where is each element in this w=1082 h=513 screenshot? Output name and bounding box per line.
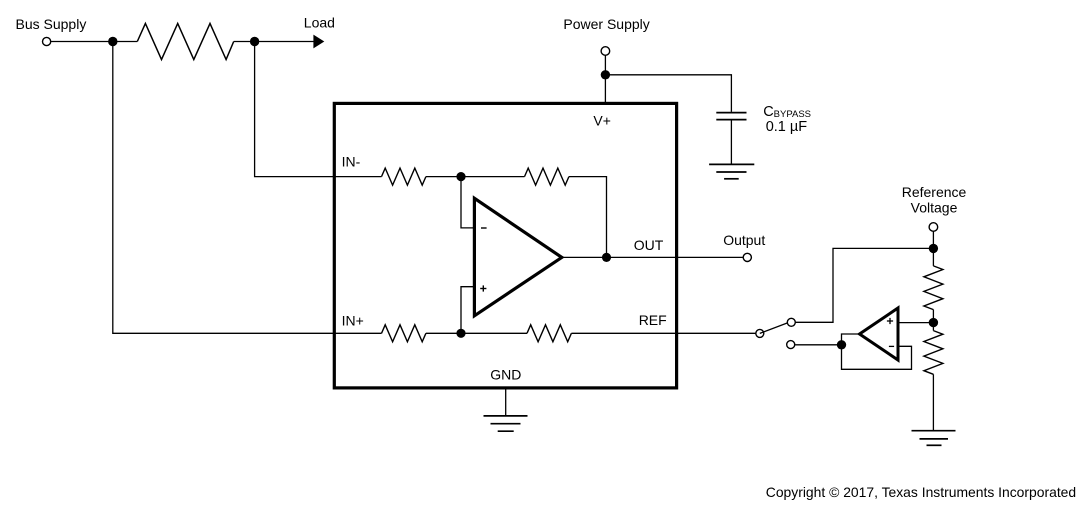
node IN+ junction xyxy=(456,329,465,338)
arrow to Load xyxy=(313,35,324,49)
wire xyxy=(426,176,461,178)
wire REF pin to switch pole xyxy=(571,332,755,334)
wire GND pin xyxy=(505,388,507,416)
svg-text:Bus Supply: Bus Supply xyxy=(16,16,87,32)
op-amp U1 plus sign xyxy=(480,288,486,290)
terminal Power Supply xyxy=(601,47,610,56)
op-amp buffer minus sign xyxy=(889,345,894,347)
wire xyxy=(234,41,255,43)
wire xyxy=(932,231,934,248)
switch pole (from REF) xyxy=(756,329,764,337)
switch arm xyxy=(760,323,788,334)
wire OUT pin xyxy=(562,256,677,258)
svg-text:Voltage: Voltage xyxy=(911,200,958,216)
wire xyxy=(461,332,527,334)
wire to bypass capacitor xyxy=(605,75,731,112)
switch throw 2 xyxy=(787,341,795,349)
node divider midpoint xyxy=(929,318,938,327)
wire xyxy=(604,55,606,75)
wire buffer non-inverting input xyxy=(898,322,933,324)
wire xyxy=(51,41,113,43)
svg-text:Reference: Reference xyxy=(902,184,967,200)
wire xyxy=(932,310,934,323)
resistor R_shunt xyxy=(137,24,233,60)
svg-text:0.1 µF: 0.1 µF xyxy=(766,119,808,135)
wire to non-inverting input xyxy=(461,287,474,334)
wire IN+ pin xyxy=(334,332,381,334)
node IN- junction xyxy=(456,172,465,181)
terminal Output xyxy=(743,253,751,261)
wire xyxy=(932,248,934,266)
wire to inverting input xyxy=(461,177,474,228)
ground symbol (IC GND) xyxy=(484,416,528,431)
wire node A down to IN+ xyxy=(113,42,334,334)
junction node B (shunt right) xyxy=(250,37,259,46)
svg-text:Power Supply: Power Supply xyxy=(563,16,649,32)
wire xyxy=(932,374,934,430)
svg-text:IN+: IN+ xyxy=(342,313,364,329)
svg-text:Load: Load xyxy=(304,14,335,30)
wire xyxy=(426,332,461,334)
wire xyxy=(255,41,314,43)
junction node A (shunt left) xyxy=(108,37,117,46)
resistor divider bottom xyxy=(924,331,943,375)
op-amp U1 xyxy=(474,198,561,315)
wire switch throw1 to reference node xyxy=(795,248,933,322)
resistor input IN- xyxy=(382,168,426,185)
svg-text:OUT: OUT xyxy=(634,237,664,253)
node OUT junction xyxy=(602,253,611,262)
junction node V+ xyxy=(601,70,610,79)
wire buffer output and feedback loop xyxy=(842,334,912,369)
wire IN- pin xyxy=(334,176,381,178)
terminal Reference Voltage xyxy=(929,223,938,232)
IC boundary box xyxy=(334,103,676,388)
wire V+ pin xyxy=(604,75,606,104)
svg-text:V+: V+ xyxy=(593,113,611,129)
wire xyxy=(932,323,934,331)
terminal Bus Supply xyxy=(43,37,51,45)
wire xyxy=(113,41,138,43)
resistor feedback (IN- to OUT) xyxy=(525,168,569,185)
op-amp U1 minus sign xyxy=(481,227,487,229)
wire throw2 to buffer output node xyxy=(795,344,842,346)
wire feedback top xyxy=(461,176,525,178)
wire OUT to Output terminal xyxy=(677,256,744,258)
svg-text:Copyright © 2017, Texas Instru: Copyright © 2017, Texas Instruments Inco… xyxy=(766,484,1076,500)
wire xyxy=(730,120,732,164)
ground symbol (bypass) xyxy=(709,164,754,178)
switch throw 1 xyxy=(787,318,795,326)
wire xyxy=(569,177,607,258)
wire node B down to IN- xyxy=(255,42,335,177)
ground symbol (divider) xyxy=(912,431,956,446)
resistor divider top xyxy=(924,266,943,310)
capacitor C_BYPASS xyxy=(716,113,746,120)
op-amp buffer plus sign xyxy=(887,320,893,322)
svg-text:Output: Output xyxy=(723,232,765,248)
resistor REF (IN+ to REF) xyxy=(527,325,571,342)
op-amp buffer U2 xyxy=(860,308,899,360)
svg-text:REF: REF xyxy=(639,312,667,328)
node buffer output junction xyxy=(837,340,846,349)
svg-text:IN-: IN- xyxy=(342,154,361,170)
resistor input IN+ xyxy=(382,325,426,342)
svg-text:GND: GND xyxy=(490,367,521,383)
node reference top junction xyxy=(929,244,938,253)
